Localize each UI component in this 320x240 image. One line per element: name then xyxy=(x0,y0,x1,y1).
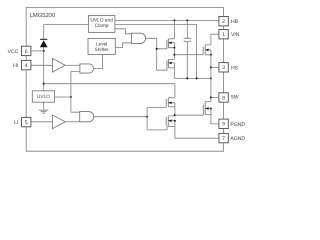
wire level shifter output to AND U3 xyxy=(115,43,131,48)
wire LS gate feed branches xyxy=(147,107,167,129)
pin HB 2 xyxy=(219,17,239,26)
junction HS gate feed xyxy=(156,48,158,50)
junction VCC / LS driver supply xyxy=(43,83,45,85)
buffer A1 (HI) xyxy=(52,58,65,72)
svg-text:PGND: PGND xyxy=(230,122,245,128)
wire buffer A1 to AND U1 xyxy=(65,64,80,66)
AND gate U1 (HI path) xyxy=(80,64,94,73)
wire AND U3 output to HS driver gates xyxy=(146,38,167,70)
AND gate U3 (high side) xyxy=(132,33,146,43)
wire UVLO output xyxy=(55,96,71,98)
junction VCC node xyxy=(43,50,45,52)
wire PGND xyxy=(211,109,219,124)
svg-text:LMG5200: LMG5200 xyxy=(30,12,56,19)
wire SW pin xyxy=(211,96,219,98)
ground xyxy=(39,102,48,113)
wire clamp output rail xyxy=(115,25,197,79)
wire HI pin to buffer xyxy=(31,64,53,66)
bootstrap diode D1 xyxy=(40,25,48,51)
IC outline xyxy=(26,8,223,152)
wire clamp UVLO signal to AND U3 xyxy=(115,29,132,34)
svg-text:HS: HS xyxy=(231,66,239,72)
pin HS 3 xyxy=(219,63,239,72)
pin PGND 9 xyxy=(219,119,245,128)
svg-text:8: 8 xyxy=(222,95,225,101)
wire SW column xyxy=(210,50,212,102)
svg-text:VCC: VCC xyxy=(8,49,19,55)
svg-text:Shifter: Shifter xyxy=(95,47,109,53)
svg-text:1: 1 xyxy=(222,32,225,38)
svg-text:AGND: AGND xyxy=(230,136,245,142)
pin HI 4 xyxy=(13,60,31,69)
junction LS gate feed xyxy=(146,116,148,118)
wire AND U2 output to LS driver gates xyxy=(93,116,147,118)
wire LS driver vertical xyxy=(174,103,176,138)
wire LI pin to buffer xyxy=(31,121,53,123)
junction HS rail / cap xyxy=(186,77,188,79)
block Level Shifter xyxy=(88,38,115,54)
junction HS rail / source column xyxy=(210,77,212,79)
junction LS driver midpoint xyxy=(174,114,176,116)
pin AGND 7 xyxy=(219,133,245,142)
wire HS driver vertical xyxy=(173,20,175,78)
svg-text:UVLO and: UVLO and xyxy=(90,17,113,23)
svg-text:3: 3 xyxy=(222,65,225,71)
wire HB rail xyxy=(115,19,219,21)
junction Q6 body tie xyxy=(210,107,212,109)
svg-text:VIN: VIN xyxy=(231,32,240,38)
wire buffer A2 to AND U2 xyxy=(65,121,80,123)
pin VIN 1 xyxy=(219,30,240,39)
wire VCC pin to diode node xyxy=(31,50,44,52)
pin VCC 6 xyxy=(8,46,31,55)
junction LS driver body tie xyxy=(174,120,176,122)
svg-text:6: 6 xyxy=(25,49,28,55)
wire HS gate drive xyxy=(174,54,203,56)
wire LS driver supply rail xyxy=(44,84,175,98)
junction SW pin tap xyxy=(210,96,212,98)
buffer A2 (LI) xyxy=(52,115,65,129)
block UVLO xyxy=(32,91,54,102)
transistor Q6 (low-side GaN FET) xyxy=(203,102,211,116)
svg-text:UVLO: UVLO xyxy=(37,94,50,100)
wire HS pin xyxy=(211,66,219,68)
wire VIN pin to Q5 drain xyxy=(211,34,219,45)
junction HS driver source tie xyxy=(173,47,175,49)
capacitor C1 (bootstrap) xyxy=(184,20,191,78)
transistor Q1 (HS driver high) xyxy=(167,39,175,49)
wire AND U1 output to level shifter xyxy=(94,54,103,68)
junction Q5 source tie xyxy=(210,54,212,56)
svg-text:7: 7 xyxy=(222,136,225,142)
AND gate U2 (LI path) xyxy=(80,112,94,122)
wire VCC vertical to UVLO xyxy=(43,51,45,91)
transistor Q4 (LS driver low) xyxy=(166,116,175,127)
junction HB rail / cap xyxy=(186,19,188,21)
transistor Q5 (high-side GaN FET) xyxy=(203,45,211,55)
wire LS gate drive xyxy=(175,114,203,116)
transistor Q3 (LS driver high) xyxy=(166,98,175,108)
junction HB rail / driver drain xyxy=(173,19,175,21)
pin LI 5 xyxy=(14,117,31,126)
wire diode cathode to UVLO and Clamp xyxy=(44,24,89,26)
svg-text:HI: HI xyxy=(13,63,18,69)
junction HS rail / clamp return xyxy=(196,77,198,79)
wire UVLO net to AND U1 and AND U2 xyxy=(71,72,80,113)
svg-text:Level: Level xyxy=(96,41,107,47)
svg-text:SW: SW xyxy=(230,94,238,100)
wire HS rail xyxy=(174,77,211,79)
block UVLO and Clamp xyxy=(88,16,115,33)
transistor Q2 (HS driver low) xyxy=(167,59,175,67)
svg-text:9: 9 xyxy=(222,122,225,128)
junction HS pin tap xyxy=(210,66,212,68)
svg-text:5: 5 xyxy=(25,120,28,126)
svg-text:Clamp: Clamp xyxy=(95,23,109,29)
wire AGND return xyxy=(175,137,219,139)
svg-text:LI: LI xyxy=(14,120,18,126)
pin SW 8 xyxy=(219,93,239,102)
svg-text:2: 2 xyxy=(222,19,225,25)
junction UVLO net xyxy=(70,96,72,98)
svg-text:HB: HB xyxy=(231,19,239,25)
junction HS driver midpoint xyxy=(173,54,175,56)
svg-text:4: 4 xyxy=(25,63,28,69)
